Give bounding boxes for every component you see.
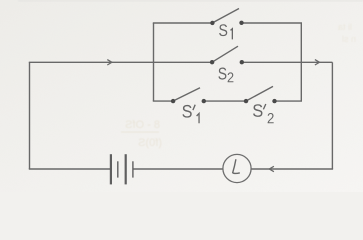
label S'1: letter S	[182, 105, 191, 118]
wire: left vertical (top-left corner down to bottom wire)	[29, 62, 31, 169]
switch S'1 blade	[173, 88, 200, 101]
lamp L circle	[223, 154, 251, 182]
wire: bottom branch middle segment (S'1 contact to S'2 pivot)	[204, 100, 246, 102]
wire: bottom branch left stub (to S'1 pivot)	[153, 100, 173, 102]
battery cell plate (long) 3	[125, 154, 127, 184]
svg-text:li ta: li ta	[338, 22, 352, 32]
switch S'2 pivot node	[244, 99, 248, 103]
switch S2 contact node	[240, 60, 244, 64]
svg-text:(f0)S: (f0)S	[138, 137, 162, 149]
current arrow on bottom wire near lamp (pointing left)	[269, 166, 274, 171]
battery cell plate (short) 2	[117, 161, 119, 177]
label S'1: subscript 1	[197, 113, 199, 123]
label S2: letter S	[218, 68, 226, 80]
wire: right vertical (down to bottom wire)	[331, 62, 333, 169]
parallel-box left vertical wire	[153, 23, 155, 101]
wire: bottom branch right stub (S'2 contact to box corner)	[275, 100, 303, 102]
bleed-through text from verso (faint)	[121, 22, 356, 149]
switch S2 blade	[212, 46, 238, 62]
label S2: subscript 2	[228, 72, 234, 82]
switch S1 blade	[212, 9, 239, 23]
switch S1 contact node	[239, 21, 243, 25]
battery cell plate (short) 4	[132, 161, 134, 177]
wire: S2 contact to top-right corner	[242, 61, 333, 63]
svg-text:8 - OfS: 8 - OfS	[125, 119, 160, 131]
scan smudge along top edge	[18, 0, 363, 2]
wire: battery to lamp segment	[133, 168, 223, 170]
label S1: subscript 1	[231, 29, 233, 40]
parallel-box right vertical wire	[300, 23, 302, 101]
switch S1 pivot node	[210, 21, 214, 25]
switch S'1 pivot node	[171, 99, 175, 103]
prime of S'2	[263, 104, 265, 109]
label S1: letter S	[219, 24, 227, 36]
prime of S'1	[193, 105, 195, 110]
paper grain texture	[0, 0, 363, 192]
wire: bottom left segment (left corner to battery)	[29, 168, 111, 170]
svg-text:n sl: n sl	[342, 34, 356, 44]
wire: lamp to bottom-right corner segment	[251, 168, 333, 170]
label S'2: subscript 2	[268, 113, 274, 123]
paper background	[0, 0, 363, 192]
battery cell plate (long) 1	[110, 154, 112, 184]
wire: main horizontal from left corner to S2 pivot	[29, 61, 212, 63]
switch S'2 contact node	[272, 99, 276, 103]
switch S2 pivot node	[210, 60, 214, 64]
wire: top branch left segment (to S1 pivot)	[153, 22, 213, 24]
current arrow on left main wire (pointing right)	[107, 60, 112, 65]
switch S'2 blade	[246, 86, 273, 101]
current arrow on top-right wire (pointing right)	[315, 60, 320, 65]
label S'2: letter S	[253, 104, 262, 117]
lamp label L (italic glyph drawn as path)	[233, 159, 240, 173]
switch S'1 contact node	[202, 99, 206, 103]
wire: top branch right segment (S1 contact to box corner)	[242, 22, 303, 24]
